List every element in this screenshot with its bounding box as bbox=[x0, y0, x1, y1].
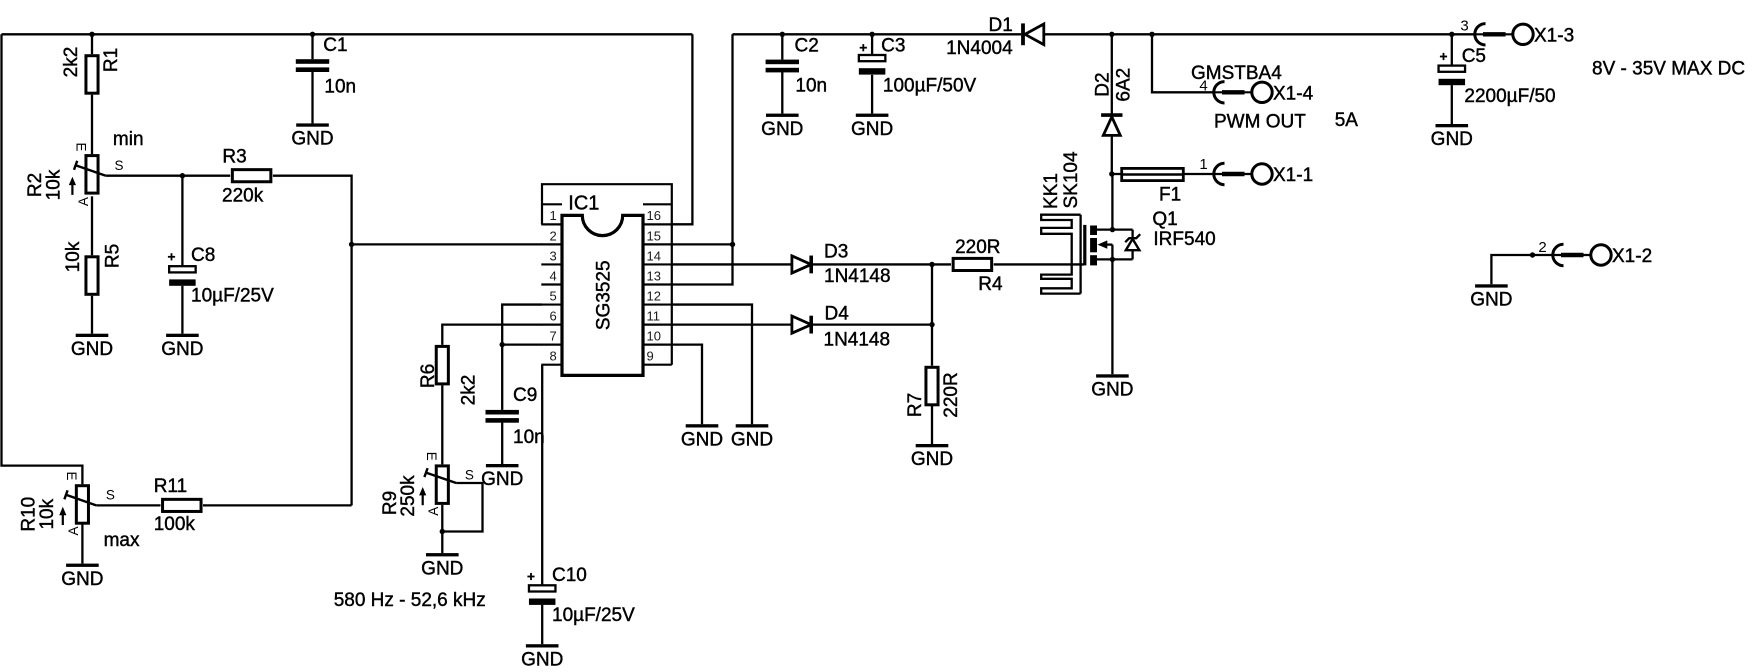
wire Vref rail top bbox=[2, 33, 693, 35]
svg-text:E: E bbox=[424, 452, 439, 461]
wire R2.S to R3 bbox=[106, 175, 230, 177]
svg-text:GND: GND bbox=[731, 429, 773, 450]
svg-text:GND: GND bbox=[421, 558, 463, 579]
svg-text:D4: D4 bbox=[825, 303, 850, 324]
svg-text:R3: R3 bbox=[222, 146, 246, 167]
svg-text:9: 9 bbox=[647, 349, 654, 364]
wire rail D1 to C5 bbox=[1045, 33, 1475, 35]
resistor R11 bbox=[154, 476, 201, 535]
node D3/R4/R7 bbox=[929, 262, 934, 267]
svg-text:2k2: 2k2 bbox=[459, 375, 480, 406]
ground pin10 bbox=[681, 424, 723, 450]
node C1 junction bbox=[310, 32, 315, 37]
wire R9 bottom bbox=[441, 505, 443, 553]
svg-text:GND: GND bbox=[681, 429, 723, 450]
node C3 junction bbox=[869, 32, 874, 37]
capacitor C3 bbox=[859, 34, 977, 113]
svg-text:2: 2 bbox=[1538, 239, 1546, 256]
label timing range bbox=[334, 590, 486, 611]
svg-text:R4: R4 bbox=[978, 274, 1003, 295]
svg-text:F1: F1 bbox=[1159, 185, 1181, 206]
svg-text:min: min bbox=[113, 129, 144, 150]
svg-text:E: E bbox=[74, 142, 89, 151]
svg-text:15: 15 bbox=[647, 228, 661, 243]
svg-text:2200µF/50: 2200µF/50 bbox=[1464, 86, 1555, 107]
svg-text:C5: C5 bbox=[1462, 46, 1486, 67]
svg-text:max: max bbox=[104, 530, 140, 551]
wire +V rail left bbox=[733, 33, 1022, 35]
capacitor C9 bbox=[486, 345, 545, 464]
svg-text:SK104: SK104 bbox=[1061, 151, 1082, 208]
capacitor C5 bbox=[1439, 34, 1556, 124]
potentiometer R2 bbox=[25, 142, 123, 206]
svg-text:13: 13 bbox=[647, 268, 661, 283]
node D2 top bbox=[1109, 32, 1114, 37]
svg-text:R1: R1 bbox=[101, 48, 122, 72]
svg-text:3: 3 bbox=[1460, 17, 1468, 34]
svg-text:X1-1: X1-1 bbox=[1273, 165, 1313, 186]
wire Vcc vertical bbox=[672, 34, 733, 284]
wire drain up bbox=[1111, 174, 1113, 230]
svg-text:PWM OUT: PWM OUT bbox=[1214, 111, 1306, 132]
svg-text:D2: D2 bbox=[1092, 72, 1113, 96]
label 5A bbox=[1335, 110, 1359, 131]
node pin15 junction bbox=[730, 242, 735, 247]
wire R9.S loop bbox=[442, 483, 482, 532]
resistor R3 bbox=[222, 146, 271, 206]
fuse F1 bbox=[1112, 168, 1214, 205]
wire IC pin5 to C9 node bbox=[502, 305, 542, 345]
svg-text:GND: GND bbox=[1091, 380, 1133, 401]
svg-text:X1-3: X1-3 bbox=[1534, 25, 1574, 46]
node X1-2 bbox=[1530, 252, 1535, 257]
connector X1-3 bbox=[1460, 17, 1574, 46]
svg-text:100µF/50V: 100µF/50V bbox=[883, 76, 977, 97]
svg-text:7: 7 bbox=[550, 329, 557, 344]
node source bbox=[1110, 257, 1115, 262]
svg-text:GND: GND bbox=[1431, 129, 1473, 150]
wire IC pin6 to R6 bbox=[442, 325, 542, 345]
label min bbox=[113, 129, 144, 150]
wire IC pin10 to GND bbox=[672, 345, 702, 425]
transistor Q1 IRF540 bbox=[1085, 209, 1216, 266]
resistor R7 bbox=[905, 367, 962, 444]
svg-text:220R: 220R bbox=[955, 237, 1000, 258]
svg-text:C2: C2 bbox=[795, 36, 819, 57]
svg-text:100k: 100k bbox=[154, 514, 196, 535]
capacitor C10 bbox=[527, 565, 635, 644]
node drain bbox=[1110, 227, 1115, 232]
wire R3 to vertical bbox=[273, 176, 352, 506]
svg-text:10: 10 bbox=[647, 329, 661, 344]
svg-text:A: A bbox=[426, 507, 441, 516]
ground R10 bbox=[61, 564, 103, 590]
svg-text:D3: D3 bbox=[824, 241, 848, 262]
svg-text:R6: R6 bbox=[418, 364, 439, 388]
svg-text:11: 11 bbox=[647, 308, 661, 323]
wire R10 bottom bbox=[81, 524, 83, 564]
svg-text:E: E bbox=[64, 471, 79, 480]
potentiometer R10 bbox=[19, 471, 115, 535]
svg-text:R7: R7 bbox=[905, 393, 926, 417]
svg-text:S: S bbox=[106, 488, 115, 503]
resistor R4 bbox=[953, 237, 1003, 295]
wire IC pin15 bbox=[672, 243, 733, 245]
node R2 wiper junction bbox=[180, 173, 185, 178]
svg-text:5: 5 bbox=[550, 288, 557, 303]
wire left frame bbox=[2, 34, 83, 484]
ground R9 bbox=[421, 553, 463, 579]
svg-text:250k: 250k bbox=[398, 475, 419, 517]
wire X1-2 to GND bbox=[1491, 255, 1553, 284]
svg-text:10µF/25V: 10µF/25V bbox=[552, 605, 635, 626]
svg-text:2: 2 bbox=[550, 228, 557, 243]
wire IC pin14 to D3 bbox=[672, 263, 792, 265]
svg-text:A: A bbox=[66, 526, 81, 535]
diode D3 1N4148 bbox=[792, 241, 891, 287]
svg-text:X1-2: X1-2 bbox=[1612, 246, 1652, 267]
svg-text:GND: GND bbox=[161, 339, 203, 360]
svg-text:GND: GND bbox=[481, 469, 523, 490]
ground C3 bbox=[851, 114, 893, 140]
svg-text:10k: 10k bbox=[63, 241, 84, 272]
svg-text:SG3525: SG3525 bbox=[594, 260, 615, 330]
node R9 tie bbox=[440, 529, 445, 534]
wire R6 to R9 bbox=[441, 385, 443, 464]
svg-text:GND: GND bbox=[851, 119, 893, 140]
ground C1 bbox=[291, 123, 333, 149]
svg-text:8V - 35V MAX DC: 8V - 35V MAX DC bbox=[1592, 59, 1745, 80]
svg-text:GND: GND bbox=[71, 339, 113, 360]
svg-text:Q1: Q1 bbox=[1152, 209, 1177, 230]
node pin2 tee bbox=[349, 242, 354, 247]
connector X1-2 bbox=[1538, 239, 1652, 267]
svg-text:GND: GND bbox=[761, 119, 803, 140]
wire IC pin12 to GND bbox=[672, 305, 752, 425]
wire IC pin7 bbox=[502, 343, 542, 345]
capacitor C8 bbox=[168, 176, 274, 334]
connector X1-1 bbox=[1199, 156, 1313, 186]
ground C5 bbox=[1431, 124, 1473, 150]
svg-text:220R: 220R bbox=[941, 372, 962, 417]
label PWM OUT bbox=[1214, 111, 1306, 132]
svg-text:8: 8 bbox=[550, 349, 557, 364]
svg-text:4: 4 bbox=[550, 268, 557, 283]
node X1-4 tee bbox=[1149, 32, 1154, 37]
label input range bbox=[1592, 59, 1745, 80]
svg-text:4: 4 bbox=[1199, 78, 1207, 95]
svg-text:16: 16 bbox=[647, 208, 661, 223]
wire to X1-4 bbox=[1152, 34, 1214, 92]
svg-text:3: 3 bbox=[550, 248, 557, 263]
svg-text:10n: 10n bbox=[513, 427, 545, 448]
svg-text:C1: C1 bbox=[323, 35, 347, 56]
ground R7 bbox=[911, 444, 953, 470]
wire D4 to node bbox=[811, 323, 932, 325]
svg-text:IRF540: IRF540 bbox=[1153, 229, 1215, 250]
node pin5/pin7/C9 bbox=[500, 342, 505, 347]
wire gate net vertical bbox=[931, 264, 933, 365]
svg-text:10k: 10k bbox=[37, 498, 58, 529]
node C2 junction bbox=[780, 32, 785, 37]
svg-text:10k: 10k bbox=[43, 169, 64, 200]
ground C2 bbox=[761, 114, 803, 140]
node C5 junction bbox=[1449, 32, 1454, 37]
svg-text:GND: GND bbox=[521, 649, 563, 670]
diode D4 1N4148 bbox=[792, 303, 890, 350]
label GMSTBA4 bbox=[1191, 63, 1282, 84]
svg-text:IC1: IC1 bbox=[568, 193, 599, 215]
svg-text:D1: D1 bbox=[989, 15, 1013, 36]
svg-text:R11: R11 bbox=[154, 476, 187, 497]
svg-text:2k2: 2k2 bbox=[61, 47, 82, 78]
wire R11 to vertical bbox=[203, 504, 352, 506]
potentiometer R9 bbox=[380, 452, 474, 517]
svg-text:6A2: 6A2 bbox=[1113, 68, 1134, 102]
ground C8 bbox=[161, 334, 203, 360]
wire R4 to gate bbox=[994, 263, 1084, 265]
svg-text:14: 14 bbox=[647, 248, 661, 263]
svg-text:1: 1 bbox=[1199, 156, 1207, 173]
svg-text:1N4148: 1N4148 bbox=[824, 266, 891, 287]
resistor R5 bbox=[63, 196, 123, 333]
diode D1 1N4004 bbox=[946, 15, 1044, 59]
ground X1-2 bbox=[1470, 284, 1512, 310]
svg-text:X1-4: X1-4 bbox=[1273, 83, 1314, 104]
svg-text:A: A bbox=[76, 197, 91, 206]
svg-text:GND: GND bbox=[911, 449, 953, 470]
svg-text:C10: C10 bbox=[552, 565, 587, 586]
svg-text:R5: R5 bbox=[102, 244, 123, 268]
wire source down bbox=[1111, 259, 1113, 374]
diode D2 6A2 bbox=[1092, 34, 1134, 174]
svg-text:10µF/25V: 10µF/25V bbox=[191, 286, 274, 307]
svg-text:S: S bbox=[115, 158, 124, 173]
svg-text:C3: C3 bbox=[881, 36, 905, 57]
connector X1-4 bbox=[1199, 78, 1313, 105]
svg-text:10n: 10n bbox=[795, 75, 827, 96]
ground C9 bbox=[481, 464, 523, 490]
svg-text:6: 6 bbox=[550, 308, 557, 323]
resistor R1 bbox=[61, 34, 122, 154]
svg-text:KK1: KK1 bbox=[1041, 173, 1062, 209]
svg-text:GND: GND bbox=[291, 129, 333, 150]
capacitor C2 bbox=[766, 34, 828, 113]
svg-text:GND: GND bbox=[1470, 290, 1512, 311]
svg-text:C9: C9 bbox=[513, 385, 537, 406]
svg-text:C8: C8 bbox=[191, 245, 215, 266]
svg-text:12: 12 bbox=[647, 288, 661, 303]
op-amp U1 : IC1 SG3525 PWM controller bbox=[541, 184, 672, 375]
wire pin16 drop bbox=[672, 34, 692, 224]
svg-text:S: S bbox=[465, 467, 474, 482]
resistor R6 bbox=[418, 346, 480, 405]
label max bbox=[104, 530, 140, 551]
svg-text:220k: 220k bbox=[222, 186, 264, 207]
svg-text:1N4004: 1N4004 bbox=[946, 38, 1013, 59]
ground R5 bbox=[71, 334, 113, 360]
capacitor C1 bbox=[296, 34, 356, 123]
svg-text:5A: 5A bbox=[1335, 110, 1359, 131]
svg-text:1: 1 bbox=[550, 208, 557, 223]
node D4 tee bbox=[929, 322, 934, 327]
wire D3 to R4 bbox=[811, 263, 951, 265]
svg-text:10n: 10n bbox=[324, 77, 356, 98]
ground Q1 bbox=[1091, 374, 1133, 400]
node R1 top junction bbox=[89, 32, 94, 37]
wire IC pin8 to C10 bbox=[541, 365, 543, 586]
node D2/F1/drain bbox=[1109, 171, 1114, 176]
ground C10 bbox=[521, 644, 563, 670]
wire to IC pin 2 bbox=[352, 243, 542, 245]
wire IC pin11 to D4 bbox=[672, 323, 792, 325]
ground pin12 bbox=[731, 424, 773, 450]
heatsink KK1 SK104 bbox=[1041, 151, 1082, 294]
wire R10.S to R11 bbox=[96, 504, 160, 506]
svg-text:GND: GND bbox=[61, 569, 103, 590]
svg-text:580 Hz - 52,6 kHz: 580 Hz - 52,6 kHz bbox=[334, 590, 486, 611]
svg-text:1N4148: 1N4148 bbox=[824, 329, 891, 350]
